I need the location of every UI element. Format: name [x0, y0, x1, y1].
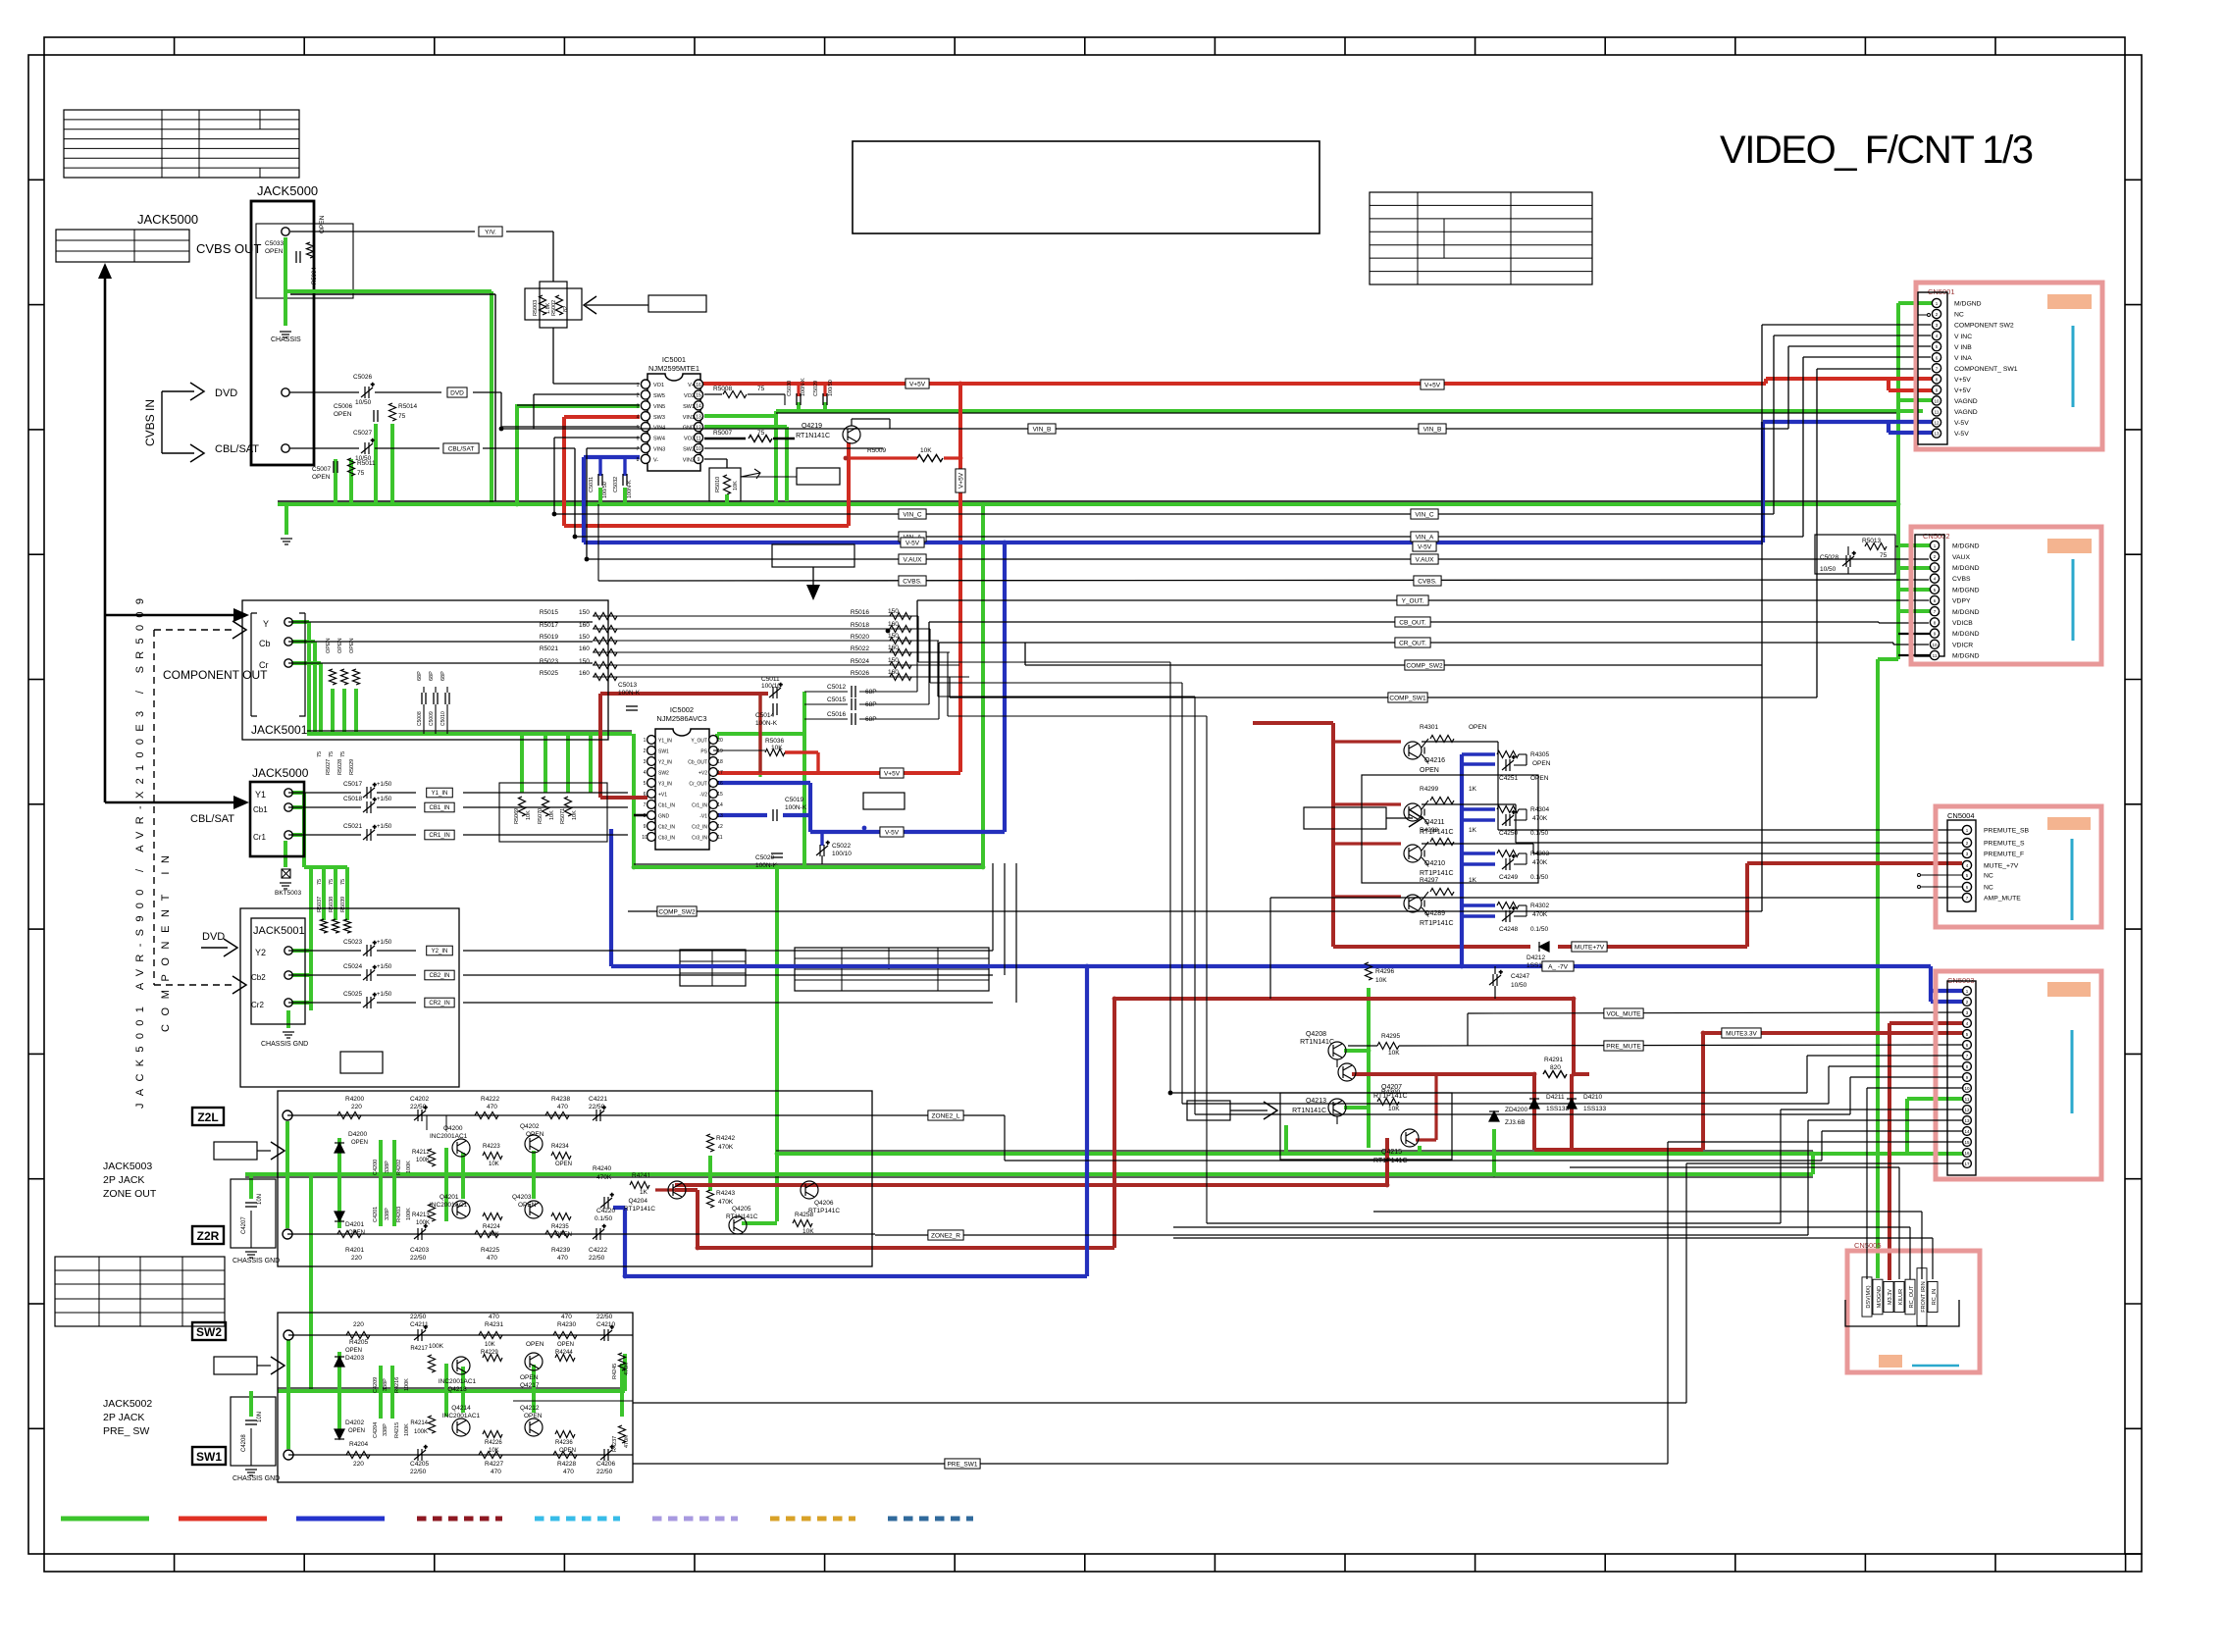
pin IC5002-16 [709, 779, 718, 788]
svg-text:Y1_IN: Y1_IN [432, 791, 448, 797]
pin IC5002-20 [709, 736, 718, 745]
svg-text:10: 10 [1964, 1086, 1970, 1091]
pin CN5001-11 [1932, 407, 1940, 416]
svg-text:19: 19 [717, 749, 723, 754]
svg-text:R4240: R4240 [593, 1165, 612, 1172]
pin SW1 [284, 1450, 293, 1460]
resistor R4217 [429, 1355, 436, 1372]
svg-text:3: 3 [644, 759, 647, 765]
svg-text:R4222: R4222 [481, 1096, 500, 1103]
net PREMUTE_SB [1498, 829, 1962, 831]
pin CN5002-7 [1930, 607, 1939, 616]
pin CN5004-6 [1962, 882, 1971, 891]
svg-text:R5021: R5021 [540, 645, 559, 652]
svg-text:100K: 100K [404, 1423, 410, 1436]
wire CB2_IN [288, 974, 361, 976]
bracket CVBS IN selector [161, 391, 163, 453]
capacitor C5014 [773, 703, 777, 715]
svg-text:C5016: C5016 [827, 711, 847, 718]
wire green CN5002 stub y579 [1898, 566, 1931, 570]
svg-text:Y2_IN: Y2_IN [432, 949, 448, 955]
net label Y_OUT [1397, 595, 1428, 605]
svg-text:R5014: R5014 [398, 403, 418, 410]
svg-text:10/50: 10/50 [1511, 982, 1527, 989]
transistor Q4202 [525, 1135, 543, 1153]
svg-text:1K: 1K [640, 1189, 648, 1196]
pin CN5001-2 [1932, 309, 1940, 318]
svg-text:R4213: R4213 [412, 1213, 430, 1218]
svg-text:SW1: SW1 [658, 749, 669, 754]
transistor Q4206 [801, 1181, 818, 1199]
net CR_OUT [939, 642, 1893, 644]
resistor R4224 [483, 1213, 502, 1220]
pin IC5002-12 [709, 822, 718, 831]
pin CN5004-7 [1962, 893, 1971, 902]
svg-text:470: 470 [487, 1104, 497, 1110]
transistor Q4212 [525, 1419, 543, 1436]
svg-text:M/DGND: M/DGND [1952, 631, 1980, 638]
svg-text:M/DGND: M/DGND [1954, 301, 1982, 308]
svg-text:R4228: R4228 [557, 1461, 577, 1468]
net label CR_OUT [1395, 638, 1430, 647]
pin IC5001-14 SW1 [694, 401, 702, 410]
wire Cb2 riser [1004, 863, 1006, 975]
svg-text:12: 12 [1964, 1108, 1970, 1112]
svg-text:100N-K: 100N-K [785, 804, 807, 811]
arrow into R network [584, 296, 596, 314]
svg-text:NC: NC [1984, 873, 1993, 880]
net PRE_SW1 [633, 1463, 1668, 1465]
wire green R4217 col [446, 1364, 463, 1417]
svg-text:BKT5003: BKT5003 [275, 890, 301, 897]
pin CN5002-5 [1930, 585, 1939, 594]
wire CR2_IN [288, 1002, 361, 1004]
wire CB1_IN [288, 806, 361, 808]
empty label box 4 [340, 1052, 383, 1073]
svg-text:C5006: C5006 [334, 403, 353, 410]
svg-text:OPEN: OPEN [265, 248, 284, 255]
pin CN5001-6 [1932, 353, 1940, 362]
svg-text:DSV(MX): DSV(MX) [1866, 1285, 1872, 1308]
resistor R5011 [348, 458, 355, 476]
wire green Q4205 stub [742, 1221, 777, 1225]
svg-text:Cb1: Cb1 [253, 805, 268, 814]
pin IC5002-3 [647, 757, 656, 766]
svg-text:470K: 470K [596, 1174, 612, 1181]
svg-text:D4212: D4212 [1526, 955, 1546, 961]
wire blue stub y836 [1462, 818, 1495, 821]
svg-text:R4291: R4291 [1544, 1057, 1564, 1063]
svg-text:22/50: 22/50 [410, 1469, 427, 1475]
wire CN5003 pin14 [1822, 1130, 1962, 1132]
transistor Q4201 [452, 1201, 470, 1218]
pin Y [285, 618, 292, 626]
wire green VIN5 feed [517, 406, 640, 504]
diode D4212 [1539, 942, 1549, 952]
svg-text:VIN2: VIN2 [683, 457, 695, 463]
resistor R4223 [483, 1153, 502, 1160]
svg-text:0.1/50: 0.1/50 [595, 1215, 612, 1222]
diode D4211 [1529, 1099, 1539, 1109]
net VOL_MUTE [1468, 1012, 1962, 1013]
svg-text:R4239: R4239 [551, 1247, 571, 1254]
svg-text:10K: 10K [1375, 977, 1387, 984]
svg-text:75: 75 [398, 413, 406, 420]
svg-text:C5017: C5017 [343, 781, 363, 788]
diode D4203 [335, 1357, 344, 1367]
pin CN5003-4 [1963, 1019, 1972, 1028]
wire green CVBS pin to chassis [284, 237, 287, 326]
svg-text:JACK5001: JACK5001 [251, 723, 308, 737]
svg-text:100N-K: 100N-K [627, 480, 633, 498]
wire green Q4200 col [461, 1153, 465, 1199]
svg-text:150: 150 [579, 609, 590, 616]
resistor R5024 [890, 662, 911, 669]
wire red diode branches [1534, 1074, 1572, 1150]
svg-text:D4201: D4201 [345, 1221, 365, 1228]
net label V+5V ic5002 [880, 768, 904, 778]
net PRE_MUTE left [1348, 1045, 1377, 1047]
resistor R4234 [551, 1153, 571, 1160]
svg-text:10K: 10K [733, 481, 739, 490]
pin IC5002-4 [647, 768, 656, 777]
wire green CN5001 pin1 stub [1898, 301, 1933, 305]
svg-text:Cr2: Cr2 [251, 1001, 264, 1009]
svg-text:22/50: 22/50 [410, 1255, 427, 1262]
svg-text:SW2: SW2 [658, 770, 669, 776]
svg-text:R5018: R5018 [851, 622, 870, 629]
resistor R4239 [545, 1231, 569, 1238]
wire green mute column [1367, 988, 1371, 1148]
svg-text:D4203: D4203 [345, 1355, 365, 1362]
wire green Y/V to bus [285, 291, 492, 502]
svg-text:C4222: C4222 [589, 1247, 608, 1254]
svg-text:R5013: R5013 [1862, 538, 1882, 544]
svg-text:9: 9 [644, 824, 647, 830]
wire green R5037-39 legs [324, 867, 347, 920]
svg-text:VO1: VO1 [653, 383, 664, 388]
net label RC_IN vertical [1928, 1282, 1938, 1313]
svg-text:470K: 470K [624, 1363, 630, 1375]
svg-text:160: 160 [579, 670, 590, 677]
resistor R4258 [793, 1220, 812, 1227]
svg-text:Q4201: Q4201 [440, 1194, 459, 1201]
table top-middle [1370, 192, 1592, 284]
svg-text:Q4206: Q4206 [814, 1200, 834, 1207]
svg-text:CVBS.: CVBS. [1418, 578, 1437, 585]
svg-text:V+5V: V+5V [1954, 387, 1971, 394]
svg-text:75: 75 [340, 879, 346, 885]
net label MUTE+7V [1572, 942, 1607, 952]
svg-text:Cr1: Cr1 [253, 833, 266, 842]
svg-text:C4202: C4202 [410, 1096, 430, 1103]
svg-text:R5015: R5015 [540, 609, 559, 616]
svg-text:R5008: R5008 [713, 386, 733, 392]
svg-text:+1/50: +1/50 [377, 797, 392, 802]
svg-text:VDICB: VDICB [1952, 620, 1973, 627]
svg-text:+1/50: +1/50 [377, 964, 392, 970]
svg-text:FRONT IRIN: FRONT IRIN [1921, 1281, 1927, 1312]
pin CN5002-11 [1930, 650, 1939, 659]
svg-text:C5023: C5023 [343, 939, 363, 946]
svg-text:12: 12 [1934, 421, 1940, 426]
pin IC5002-1 [647, 736, 656, 745]
svg-text:Q4202: Q4202 [520, 1123, 540, 1130]
wire blue C5031 C5032 tops [600, 457, 625, 476]
svg-text:Y1: Y1 [255, 790, 266, 800]
svg-text:CVBS: CVBS [1952, 576, 1971, 583]
svg-text:+1/50: +1/50 [377, 782, 392, 788]
wire row R5023 [593, 664, 959, 666]
svg-text:C5031: C5031 [589, 477, 595, 492]
wire green GND pin [704, 427, 787, 501]
svg-text:17: 17 [1964, 1162, 1970, 1166]
svg-text:+: + [1512, 906, 1516, 912]
resistor R4228 [553, 1452, 577, 1459]
svg-text:PRE_MUTE: PRE_MUTE [1606, 1043, 1641, 1050]
pin CN5001-7 [1932, 364, 1940, 373]
wire KILUR feed [1898, 1167, 1900, 1279]
diode D4202 [335, 1429, 344, 1439]
svg-text:PREMUTE_S: PREMUTE_S [1984, 841, 2025, 848]
capacitors C5008 C5009 C5010 68P [422, 693, 426, 704]
svg-text:75: 75 [357, 470, 365, 477]
resistor R5013 / capacitor C5028 [1815, 535, 1895, 574]
capacitor C5032 [623, 474, 627, 486]
pin IC5002-14 [709, 800, 718, 809]
svg-text:CN5005: CN5005 [1854, 1241, 1882, 1250]
svg-text:470: 470 [557, 1255, 568, 1262]
connector CN5004 [1936, 806, 2101, 927]
wire green cap legs C5030 C5029 [799, 402, 825, 411]
svg-text:Q4208: Q4208 [1306, 1031, 1326, 1038]
svg-text:D4202: D4202 [345, 1420, 365, 1426]
pin CN5003-2 [1963, 998, 1972, 1007]
resistor R4244 [555, 1355, 575, 1362]
transistor Q4207 [1338, 1063, 1356, 1081]
svg-text:R4200: R4200 [345, 1096, 365, 1103]
box Q4213 group [1280, 1093, 1452, 1160]
svg-text:Y: Y [263, 619, 269, 629]
pin CN5003-9 [1963, 1073, 1972, 1082]
svg-text:JACK5000: JACK5000 [257, 183, 318, 198]
pin CN5003-15 [1963, 1138, 1972, 1147]
wire pointer to R network [586, 304, 648, 306]
svg-text:R5007: R5007 [713, 430, 733, 437]
pin IC5001-15 VO2 [694, 390, 702, 399]
svg-text:75: 75 [1880, 552, 1888, 559]
svg-text:68P: 68P [440, 671, 446, 681]
pin IC5001-6 SW4 [641, 434, 649, 442]
svg-text:PREMUTE_SB: PREMUTE_SB [1984, 828, 2030, 835]
capacitor C5023 [363, 941, 377, 956]
resistor R5016 [890, 613, 911, 620]
svg-text:VIN_A: VIN_A [1416, 534, 1434, 541]
capacitor C4202 [414, 1106, 428, 1121]
boxed label SW1 [192, 1447, 226, 1465]
wire FRONT IRIN feed [1921, 1212, 1923, 1279]
svg-text:A_ -7V: A_ -7V [1548, 963, 1569, 970]
svg-text:82: 82 [563, 306, 569, 312]
svg-text:11: 11 [717, 835, 722, 841]
wire green D4200 D4201 col [337, 1138, 341, 1228]
svg-text:75: 75 [757, 386, 765, 392]
capacitor C4208 box [231, 1397, 276, 1466]
svg-text:R4235: R4235 [551, 1224, 569, 1230]
wire green R4245 R4237 col [620, 1364, 624, 1417]
net label DVD [447, 387, 467, 397]
accent CN5005 [1879, 1355, 1902, 1368]
svg-text:COMPONENT OUT: COMPONENT OUT [163, 668, 268, 682]
empty label box pre-sw [214, 1357, 257, 1374]
wire CN5002 pin9 stub [1898, 633, 1931, 635]
svg-text:OPEN: OPEN [518, 1202, 537, 1209]
svg-text:+V1: +V1 [658, 792, 667, 798]
svg-text:R5009: R5009 [867, 447, 887, 454]
svg-text:C5010: C5010 [440, 711, 446, 726]
wire green bus B right segment [717, 732, 804, 736]
capacitor C4205 [414, 1445, 428, 1461]
resistor R4225 [475, 1231, 498, 1238]
pin CN5002-2 [1930, 552, 1939, 561]
wire green C5007 R5011 legs [336, 459, 351, 504]
wire bundle vert4 [1206, 716, 1208, 1223]
wire Y row [288, 621, 593, 623]
svg-text:R4258: R4258 [795, 1212, 814, 1218]
svg-text:68P: 68P [417, 671, 423, 681]
wire green R5027-29 legs [333, 689, 356, 734]
wire zone bottom row [287, 1233, 875, 1235]
net label CB1_IN [425, 802, 454, 812]
svg-text:CR1_IN: CR1_IN [429, 833, 449, 839]
table CVBS OUT [56, 230, 189, 262]
svg-text:13: 13 [717, 813, 723, 819]
svg-text:INC2001AC1: INC2001AC1 [442, 1413, 481, 1420]
net label V.AUX [899, 554, 926, 564]
jack JACK5001 component out [242, 600, 608, 740]
wire VO3 [704, 438, 746, 440]
svg-text:R5025: R5025 [540, 670, 559, 677]
svg-text:7: 7 [644, 802, 647, 808]
svg-text:V+5V: V+5V [957, 472, 964, 489]
pin CN5003-1 [1963, 987, 1972, 996]
wire blue stub y769 [1462, 752, 1495, 755]
svg-text:C5009: C5009 [429, 711, 435, 726]
svg-text:R4216: R4216 [394, 1377, 400, 1393]
svg-text:1K: 1K [1469, 877, 1477, 884]
pin CN5004-5 [1962, 870, 1971, 879]
svg-text:C4211: C4211 [410, 1321, 429, 1328]
svg-text:Y3_IN: Y3_IN [658, 781, 672, 787]
svg-text:Cr3_IN: Cr3_IN [692, 835, 707, 841]
pin IC5002-7 [647, 800, 656, 809]
resistor R5018 [890, 626, 911, 633]
svg-text:0.1/50: 0.1/50 [1530, 874, 1548, 881]
jack JACK5000 (CVBS) [251, 201, 314, 465]
resistor R5004 [307, 242, 314, 258]
svg-text:820: 820 [1550, 1064, 1561, 1071]
wire red zone out lower [675, 1138, 1387, 1185]
svg-text:RT1P141C: RT1P141C [624, 1206, 655, 1213]
transistor Q4289 [1404, 895, 1422, 912]
svg-text:100/50: 100/50 [828, 380, 834, 396]
svg-text:C5028: C5028 [1820, 554, 1839, 561]
svg-text:JACK5002: JACK5002 [103, 1398, 152, 1410]
svg-text:CHASSIS GND: CHASSIS GND [233, 1258, 280, 1265]
svg-text:5: 5 [644, 781, 647, 787]
svg-text:R4225: R4225 [481, 1247, 500, 1254]
svg-text:100/50: 100/50 [602, 482, 608, 498]
net label V-5V [901, 538, 924, 547]
svg-text:V-5V: V-5V [906, 540, 920, 546]
trimmer arrow [741, 469, 760, 479]
net label V+5V [906, 379, 929, 388]
svg-text:470: 470 [561, 1314, 572, 1320]
boxed label Z2L [192, 1108, 224, 1125]
wire bundle row3 [912, 641, 1195, 697]
svg-text:CBL/SAT: CBL/SAT [190, 813, 234, 825]
svg-text:R4226: R4226 [485, 1440, 502, 1446]
transistor Q4214 [452, 1419, 470, 1436]
svg-text:V+5V: V+5V [909, 381, 926, 387]
svg-text:C5013: C5013 [618, 682, 638, 689]
empty label box 3 [772, 544, 854, 567]
resistor R4241 [630, 1182, 649, 1189]
box resistor bank [499, 783, 607, 842]
svg-text:R5039: R5039 [340, 897, 346, 912]
svg-text:10K: 10K [572, 810, 578, 820]
wire DSV(MX) feed [1866, 1088, 1868, 1279]
resistors R4305 R4304 R4303 R4302 + caps [1497, 751, 1519, 758]
svg-text:+: + [610, 1193, 614, 1199]
svg-text:R5071: R5071 [560, 808, 566, 824]
net ZONE2_R [875, 1234, 1808, 1236]
svg-text:R4304: R4304 [1530, 806, 1550, 813]
accent CN5004 [2047, 817, 2091, 830]
svg-text:Cr2_IN: Cr2_IN [692, 824, 707, 830]
pin IC5001-2 SW5 [641, 390, 649, 399]
net label M3.3V vertical [1884, 1282, 1893, 1313]
svg-text:M3.3V: M3.3V [1888, 1289, 1893, 1305]
svg-text:10K: 10K [549, 810, 555, 820]
net label CB2_IN [425, 970, 454, 980]
svg-text:SW5: SW5 [653, 393, 665, 399]
svg-text:1SS133: 1SS133 [1546, 1106, 1570, 1112]
accent CN5003 [2047, 982, 2091, 997]
resistor R4212 [429, 1149, 436, 1166]
svg-text:V+: V+ [688, 383, 695, 388]
resistor R4235 [551, 1213, 571, 1220]
svg-text:R4215: R4215 [394, 1422, 400, 1438]
svg-text:-V2: -V2 [699, 792, 707, 798]
svg-text:VO3: VO3 [684, 437, 695, 442]
svg-text:22/50: 22/50 [589, 1104, 605, 1110]
pin Cb2 [285, 971, 292, 979]
legend orange dashed [770, 1517, 855, 1522]
svg-text:OPEN: OPEN [337, 638, 343, 653]
svg-text:GND: GND [658, 813, 670, 819]
wire to IC5001 pin1 [552, 328, 554, 384]
svg-text:NC: NC [1984, 885, 1993, 892]
net label Y1_IN [427, 788, 453, 798]
svg-text:V-5V: V-5V [1418, 543, 1432, 550]
wire green chassis gnd 2 [286, 1010, 290, 1028]
svg-text:OPEN: OPEN [351, 1140, 368, 1146]
pin JACK5000 CBL/SAT [282, 444, 289, 452]
svg-text:9: 9 [698, 457, 700, 463]
svg-text:C5008: C5008 [417, 711, 423, 726]
svg-text:DVD: DVD [450, 389, 464, 396]
